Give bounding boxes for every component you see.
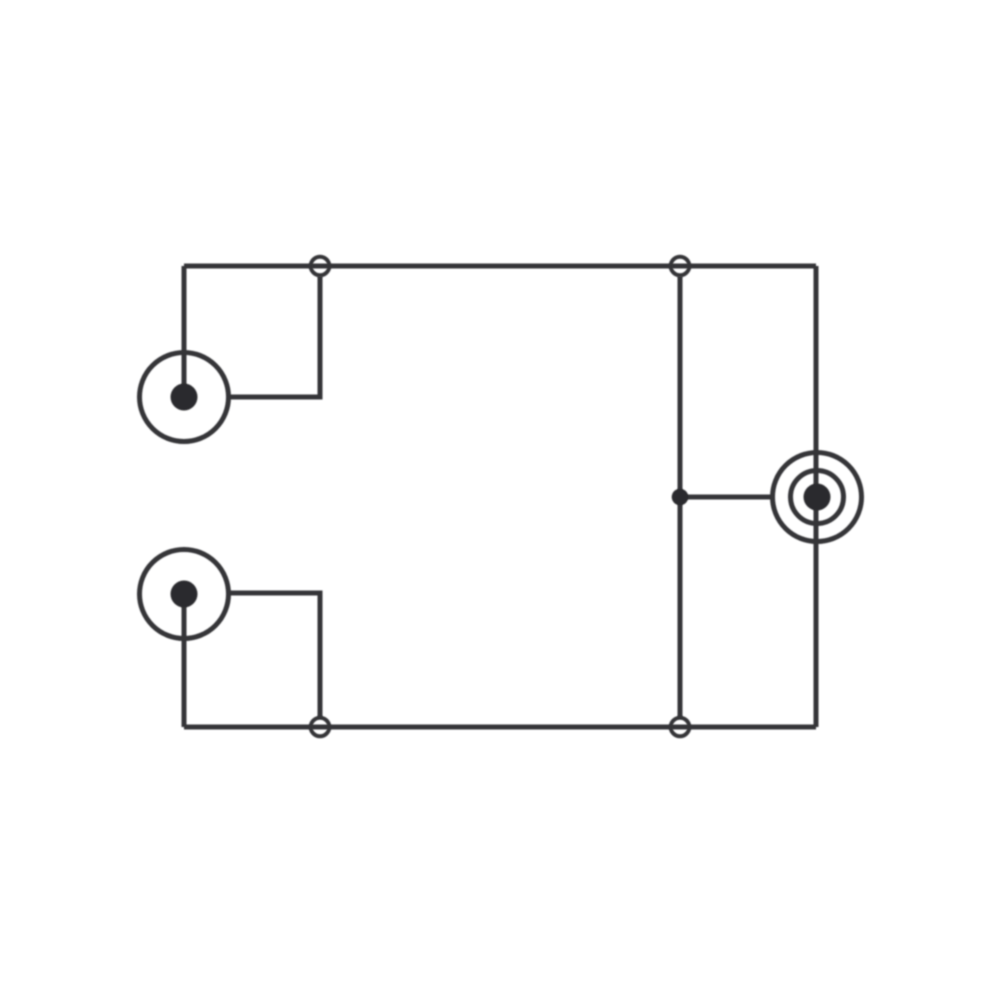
- connector P2 RCA plug left-bottom: outer shell: [140, 550, 229, 639]
- connector P1 center pin dot: [171, 384, 198, 411]
- node B terminal circle (top-right): [671, 257, 690, 276]
- node C terminal circle (bottom-left): [311, 718, 330, 737]
- connector P1 RCA plug left-top: outer shell: [140, 353, 229, 442]
- node D terminal circle (bottom-right): [671, 718, 690, 737]
- connector J3 center pin dot: [804, 484, 831, 511]
- wire: top-left corner drop to RCA L tip: [182, 266, 187, 397]
- wire: top horizontal bus: [184, 264, 816, 269]
- wire: RCA L sleeve branch to node A: [229, 276, 320, 397]
- connector J3 jack right: outer ring: [773, 453, 862, 542]
- connector J3 jack right: middle ring: [791, 471, 844, 524]
- junction J1 solder dot: [672, 489, 689, 506]
- node A terminal circle (top-left): [311, 257, 330, 276]
- wire: right vertical side: [814, 266, 819, 727]
- wire: bottom horizontal bus: [184, 725, 816, 730]
- wire: RCA R sleeve branch to node C: [229, 593, 320, 718]
- wire: middle vertical between node B and node D: [678, 276, 683, 718]
- connector P2 center pin dot: [171, 581, 198, 608]
- wire: RCA R tip drop to bottom bus: [182, 594, 187, 727]
- wire: branch from junction J1 to jack sleeve: [680, 495, 771, 500]
